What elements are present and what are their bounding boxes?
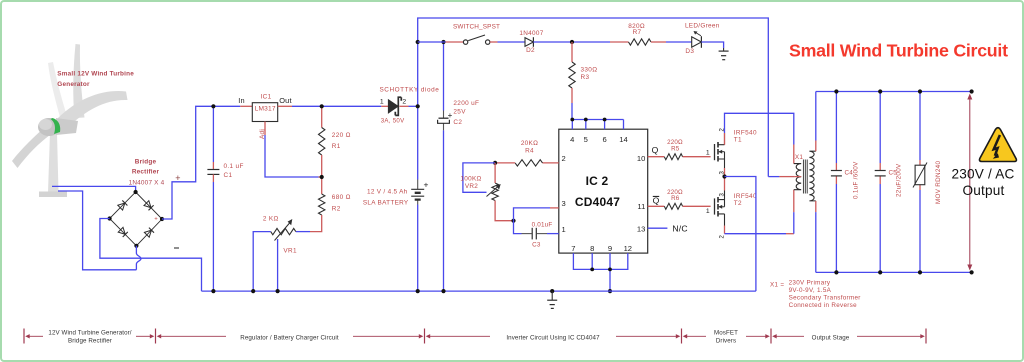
section divider bars — [24, 329, 926, 344]
wire: D2 to R7 — [533, 41, 610, 43]
svg-text:7: 7 — [571, 244, 575, 253]
svg-text:Bridge Rectifier: Bridge Rectifier — [68, 337, 112, 344]
svg-text:12V Wind Turbine Generator/: 12V Wind Turbine Generator/ — [48, 329, 131, 336]
battery 12V SLA — [411, 180, 428, 205]
transformer X1 — [794, 151, 816, 201]
svg-text:D2: D2 — [526, 47, 535, 54]
output measurement arrow — [967, 94, 972, 271]
wire: R2 bottom to VR1 — [310, 215, 322, 232]
node: C4 top — [834, 89, 838, 93]
wire: LED cathode to ground — [701, 42, 723, 48]
svg-text:IRF540: IRF540 — [734, 129, 757, 136]
wire: C1 column lower — [212, 174, 214, 182]
wire: secondary top to output rail — [815, 141, 817, 152]
wire: T1 drain to transformer primary top — [724, 133, 726, 145]
svg-text:LED/Green: LED/Green — [685, 23, 720, 30]
svg-text:0.1uF /600V: 0.1uF /600V — [853, 161, 860, 199]
node: VR2 top junction — [493, 161, 497, 165]
wire: pin10 Q to R5 — [648, 156, 665, 158]
wire: main ground rail — [202, 290, 756, 292]
svg-text:11: 11 — [637, 202, 645, 211]
resistor R6 — [664, 203, 682, 209]
label: 820 Ohm R7 — [628, 23, 645, 36]
diode D2 1N4007 — [525, 37, 533, 47]
node: C5 bottom — [878, 270, 882, 274]
label: 220 Ohm R1 — [332, 132, 351, 150]
transistor Q1 IRF540 T1 — [706, 128, 726, 175]
svg-text:330Ω: 330Ω — [581, 67, 598, 74]
wire: R7 to LED — [651, 41, 666, 43]
wire: secondary bottom down — [815, 201, 817, 212]
wire: switch rail segment 1 — [418, 41, 446, 43]
svg-text:9: 9 — [608, 244, 612, 253]
capacitor C3 0.01uF — [532, 228, 536, 240]
svg-text:10: 10 — [637, 154, 645, 163]
node: pin9 junction — [608, 268, 612, 272]
svg-text:8: 8 — [590, 244, 594, 253]
node: rail C2 — [441, 289, 445, 293]
svg-text:C1: C1 — [224, 172, 233, 179]
node: Out junction with R1 — [320, 104, 324, 108]
node: pin8 junction — [590, 268, 594, 272]
svg-text:T2: T2 — [734, 200, 742, 207]
label: 0.01uF C3 — [532, 221, 553, 248]
svg-text:SCHOTTKY diode: SCHOTTKY diode — [380, 86, 440, 93]
label: IC2 bottom pin numbers — [571, 244, 632, 253]
svg-text:Output Stage: Output Stage — [812, 334, 850, 341]
IC U2 CD4047 box — [559, 129, 648, 253]
svg-text:MosFET: MosFET — [714, 329, 738, 336]
wire: bridge + up to regulator input — [162, 106, 240, 219]
svg-text:VR1: VR1 — [283, 247, 297, 254]
capacitor C2 2200uF — [438, 111, 453, 131]
node: pin3 junction — [511, 219, 515, 223]
section 3 label: Inverter Circuit Using IC CD4047 — [426, 334, 681, 341]
svg-text:R4: R4 — [525, 147, 534, 154]
svg-text:R3: R3 — [581, 74, 590, 81]
svg-text:X1: X1 — [795, 154, 803, 161]
svg-text:230V Primary: 230V Primary — [789, 280, 831, 287]
svg-text:-: - — [101, 217, 103, 223]
wire: R6 to T2 gate — [683, 205, 711, 207]
label: IC2 left pin numbers — [562, 154, 566, 234]
wire: R1 top lead — [321, 106, 323, 127]
svg-text:T1: T1 — [734, 136, 742, 143]
svg-text:14: 14 — [619, 135, 627, 144]
svg-text:IRF540: IRF540 — [734, 193, 757, 200]
svg-text:In: In — [238, 96, 245, 105]
capacitor C4 — [831, 171, 842, 176]
section 5 label: Output Stage — [772, 334, 925, 341]
wire: bridge bottom node jog over - wire — [136, 246, 141, 270]
resistor R2 — [319, 194, 325, 215]
node: MOV top — [918, 89, 922, 93]
label: 20 KOhm R4 — [521, 140, 538, 154]
svg-text:IC1: IC1 — [261, 93, 272, 100]
svg-text:SWITCH_SPST: SWITCH_SPST — [453, 23, 500, 30]
wire: switch to D2 — [490, 41, 498, 43]
wire: bridge - to ground rail — [100, 219, 202, 292]
wire: schottky cathode to battery rail — [400, 105, 409, 107]
svg-text:+: + — [154, 217, 158, 223]
resistor R3 — [569, 62, 575, 88]
transistor Q2 IRF540 T2 — [706, 191, 726, 239]
section 4 label: MosFET Drivers — [683, 329, 770, 344]
svg-text:2: 2 — [402, 99, 406, 106]
wire: pin 3 connection — [514, 208, 551, 221]
svg-text:1: 1 — [706, 208, 710, 215]
diode D1 schottky — [388, 97, 401, 115]
svg-text:220 Ω: 220 Ω — [332, 132, 351, 139]
svg-text:Out: Out — [279, 96, 292, 105]
wire: output bottom rail — [816, 271, 972, 273]
svg-text:R7: R7 — [633, 29, 642, 36]
svg-text:12: 12 — [624, 244, 632, 253]
potentiometer VR1 — [271, 219, 296, 241]
svg-text:R1: R1 — [332, 143, 341, 150]
svg-text:R6: R6 — [671, 195, 680, 202]
capacitor C5 — [875, 171, 886, 176]
svg-text:3A, 50V: 3A, 50V — [381, 118, 405, 125]
svg-text:LM317: LM317 — [255, 106, 276, 113]
wire: T2 source to common node — [724, 177, 726, 191]
svg-text:Small 12V Wind Turbine: Small 12V Wind Turbine — [57, 71, 134, 78]
node: IC ground junction — [608, 289, 612, 293]
svg-text:X1 =: X1 = — [770, 282, 784, 289]
svg-text:Small Wind Turbine Circuit: Small Wind Turbine Circuit — [789, 41, 1008, 61]
svg-text:R2: R2 — [332, 206, 341, 213]
wire: center tap lead — [768, 176, 779, 178]
svg-text:20KΩ: 20KΩ — [521, 140, 538, 147]
wire: battery negative to ground rail — [417, 205, 419, 292]
svg-text:0.01uF: 0.01uF — [532, 221, 553, 228]
svg-text:CD4047: CD4047 — [575, 195, 620, 209]
svg-text:Rectifier: Rectifier — [132, 169, 160, 176]
node: MOV bottom — [918, 270, 922, 274]
svg-text:D3: D3 — [685, 48, 694, 55]
label: bridge node polarity marks — [101, 217, 158, 223]
label: 230V / AC Output — [951, 167, 1014, 199]
node: bridge left — [108, 216, 112, 220]
svg-text:IC 2: IC 2 — [586, 174, 609, 188]
node: In junction with C1 — [211, 104, 215, 108]
label: IRF540 T2 — [734, 193, 757, 207]
svg-text:MOV RDN240: MOV RDN240 — [935, 161, 942, 204]
wire: pin 1 / C3 left — [514, 221, 522, 234]
label: 2 KOhm VR1 — [263, 216, 297, 255]
wire: T2 drain to transformer primary bottom — [724, 226, 726, 234]
svg-text:680 Ω: 680 Ω — [332, 194, 351, 201]
wire: C3 right to pin 1 — [537, 233, 547, 235]
svg-text:+: + — [424, 180, 429, 190]
wire: output top rail — [816, 91, 972, 93]
svg-text:Q: Q — [652, 145, 659, 155]
wire: red lead into LM317 In — [240, 105, 252, 107]
svg-text:+: + — [448, 111, 453, 120]
ground symbol on rail — [547, 291, 557, 308]
node: pin5 junction — [584, 118, 588, 122]
svg-text:25V: 25V — [453, 108, 466, 115]
svg-text:3: 3 — [562, 199, 566, 208]
section 2 label: Regulator / Battery Charger Circuit — [157, 334, 424, 341]
svg-text:Bridge: Bridge — [135, 159, 157, 166]
potentiometer VR2 — [487, 183, 501, 201]
svg-text:5: 5 — [584, 135, 588, 144]
label: LED/Green D3 — [685, 23, 720, 55]
svg-text:C2: C2 — [453, 119, 462, 126]
LED D3 green — [692, 31, 702, 48]
wire: C1 column upper — [212, 106, 214, 162]
svg-text:Generator: Generator — [57, 81, 90, 88]
node: rail battery — [416, 289, 420, 293]
wire: R3 top lead — [571, 42, 573, 62]
svg-text:1: 1 — [706, 149, 710, 156]
node: rail C1 — [211, 289, 215, 293]
ground symbol at LED — [719, 48, 729, 60]
svg-text:Connected in Reverse: Connected in Reverse — [789, 302, 858, 309]
wire: LM317 Adj pin — [264, 122, 266, 136]
label: 100 KOhm VR2 — [460, 176, 481, 190]
switch SPST — [463, 35, 490, 44]
svg-text:VR2: VR2 — [465, 183, 478, 190]
svg-text:Output: Output — [962, 183, 1004, 198]
svg-text:1N4007 X 4: 1N4007 X 4 — [129, 180, 165, 187]
wire: IC2 VDD rail pins 4 5 6 14 — [572, 119, 623, 121]
wire: VR1 left to ground rail — [253, 232, 271, 292]
svg-text:Inverter Circuit Using IC CD40: Inverter Circuit Using IC CD4047 — [506, 334, 600, 341]
node: rail ground — [550, 289, 554, 293]
wire: generator lead A to bridge top node — [52, 186, 136, 192]
wire: VR1 wiper to ground rail — [277, 239, 279, 291]
svg-text:SLA BATTERY: SLA BATTERY — [363, 200, 409, 207]
svg-text:12 V / 4.5 Ah: 12 V / 4.5 Ah — [367, 189, 408, 196]
node: rail VR1 wiper — [276, 289, 280, 293]
bridge rectifier diodes 1N4007 X 4 — [110, 192, 162, 246]
wire: R4 to VR2 node — [495, 162, 515, 164]
wire: common source to ground rail — [725, 177, 756, 292]
label: 2200 uF 25V C2 — [453, 100, 479, 126]
op-amp U1 regulator IC1 LM317 box — [252, 103, 277, 122]
label: IC2 top pin numbers — [570, 135, 628, 144]
node: rail VR1 left — [251, 289, 255, 293]
varistor MOV RDN240 — [913, 163, 927, 188]
svg-text:Regulator / Battery Charger Ci: Regulator / Battery Charger Circuit — [240, 334, 339, 341]
section 1 label: 12V Wind Turbine Generator/Bridge Rectifier — [25, 329, 154, 344]
svg-text:13: 13 — [637, 225, 645, 234]
resistor R7 — [629, 39, 652, 45]
node: pin6 junction — [603, 118, 607, 122]
label: 680 Ohm R2 — [332, 194, 351, 213]
node: bridge top — [134, 190, 138, 194]
node: bridge bottom — [134, 244, 138, 248]
label: 330 Ohm R3 — [581, 67, 598, 82]
label: 220 Ohm R6 — [667, 189, 683, 202]
node: Adj junction R1/R2 — [320, 175, 324, 179]
node: common source junction — [722, 174, 726, 178]
resistor R1 — [319, 128, 325, 156]
wire: IC2 ground rail pins 7 8 9 12 — [573, 253, 627, 269]
resistor R5 — [664, 154, 682, 160]
node: bridge right — [160, 217, 164, 221]
high voltage warning symbol — [979, 128, 1016, 162]
label: 0.1 uF C1 — [224, 163, 244, 179]
resistor R4 — [515, 160, 542, 166]
svg-text:2200 uF: 2200 uF — [453, 100, 479, 107]
wire: pin11 Qbar to R6 — [648, 205, 665, 207]
svg-text:22uF/200V: 22uF/200V — [896, 163, 903, 197]
label: 1N4007 D2 — [519, 30, 543, 54]
svg-text:100KΩ: 100KΩ — [460, 176, 481, 183]
label: bridge - output — [174, 247, 179, 249]
wire: C5 column — [879, 92, 881, 164]
wire: LM317 Out — [278, 105, 292, 107]
svg-text:2 KΩ: 2 KΩ — [263, 216, 279, 223]
wind turbine generator image — [12, 44, 128, 197]
svg-text:1N4007: 1N4007 — [519, 30, 543, 37]
svg-text:230V / AC: 230V / AC — [951, 167, 1014, 182]
wire: R1-R2 link — [321, 155, 323, 194]
node: C4 bottom — [834, 270, 838, 274]
svg-text:Q: Q — [653, 196, 660, 206]
wire: R3 bottom lead — [571, 88, 573, 103]
node: output rail bottom end — [970, 270, 974, 274]
wire: R5 to T1 gate — [683, 156, 711, 158]
node: schottky junction — [416, 104, 420, 108]
wire: battery positive rail up and over to transformer tap — [418, 18, 769, 180]
svg-text:6: 6 — [602, 135, 606, 144]
svg-text:2: 2 — [562, 154, 566, 163]
capacitor C1 — [207, 170, 219, 175]
node: C2 top junction — [441, 40, 445, 44]
node: output rail top end — [970, 89, 974, 93]
svg-text:4: 4 — [570, 135, 574, 144]
node: C5 top — [878, 89, 882, 93]
svg-text:Secondary Transformer: Secondary Transformer — [789, 294, 861, 301]
node: R3 junction — [570, 40, 574, 44]
wire: C2 column upper — [443, 42, 445, 111]
svg-text:N/C: N/C — [672, 223, 687, 233]
wire: Out to schottky anode — [381, 105, 388, 107]
svg-text:0.1 uF: 0.1 uF — [224, 163, 244, 170]
svg-text:1: 1 — [380, 99, 384, 106]
wire: C2 bottom to ground rail — [443, 130, 445, 291]
label: IRF540 T1 — [734, 129, 757, 143]
svg-text:Drivers: Drivers — [716, 337, 736, 344]
node: switch rail junction — [416, 40, 420, 44]
label: Q bar — [653, 196, 660, 206]
wire: VR2 wiper loop — [463, 163, 495, 192]
svg-text:R5: R5 — [671, 145, 680, 152]
wire: T1 source to common node — [724, 168, 726, 177]
wire: pin13 N/C stub — [648, 227, 668, 229]
svg-text:1: 1 — [562, 225, 566, 234]
node: pin4 junction — [570, 118, 574, 122]
label: Small 12V Wind Turbine Generator — [57, 71, 134, 88]
label: 12 V / 4.5 Ah SLA BATTERY — [363, 189, 409, 207]
wire: generator lead B to bridge bottom node — [58, 191, 136, 270]
label: X1 transformer note — [770, 280, 861, 309]
wire: pin2 to R4 — [543, 162, 559, 164]
label: Bridge Rectifier — [129, 159, 165, 187]
svg-text:9V-0-9V, 1.5A: 9V-0-9V, 1.5A — [789, 287, 832, 294]
label: 220 Ohm R5 — [667, 139, 683, 152]
svg-text:C3: C3 — [532, 242, 541, 249]
wire: VR2 top lead — [494, 163, 496, 183]
label: IC2 right pin numbers — [637, 154, 645, 234]
wire: MOV column — [919, 92, 921, 161]
wire: VR2 bottom to pin3 node — [495, 201, 513, 221]
wire: C4 column — [835, 92, 837, 164]
